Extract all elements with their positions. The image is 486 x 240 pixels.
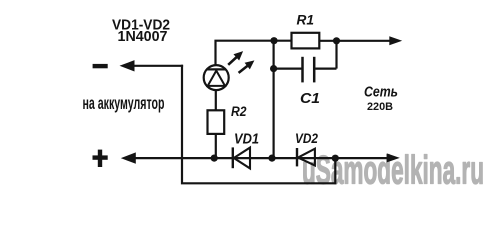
diode VD1: [233, 147, 250, 168]
LED emission arrow 1: [225, 48, 246, 68]
LED HL1 circle: [204, 65, 229, 90]
wire LED branch top corner: [216, 41, 275, 66]
svg-text:Сеть: Сеть: [364, 85, 398, 101]
wire bottom main: [134, 157, 389, 159]
wire C1 branch left vertical: [273, 41, 275, 159]
arrow to plus terminal: [121, 152, 136, 163]
svg-text:на аккумулятор: на аккумулятор: [83, 93, 165, 113]
svg-text:1N4007: 1N4007: [118, 28, 168, 45]
wire R1 right lead to mains arrow: [319, 40, 391, 42]
wire R1 left lead: [274, 40, 292, 42]
wire LED to R2: [215, 90, 217, 112]
arrow to minus terminal: [120, 60, 135, 71]
svg-text:R1: R1: [297, 12, 315, 27]
resistor R1: [292, 33, 320, 49]
resistor R2: [208, 110, 225, 134]
junction node bottom at C1 branch: [268, 155, 275, 162]
LED cathode bar: [207, 68, 226, 70]
junction node bottom at R2 branch: [211, 155, 218, 162]
minus terminal: [93, 64, 108, 68]
wire C1 left lead: [274, 67, 302, 69]
junction node top-left of R1: [270, 37, 277, 44]
svg-text:uSamodelkina.ru: uSamodelkina.ru: [302, 149, 484, 193]
junction node top-right of R1: [333, 37, 340, 44]
capacitor C1: [301, 57, 304, 83]
svg-text:R2: R2: [231, 104, 247, 119]
wire R2 to bottom: [215, 134, 217, 159]
svg-text:C1: C1: [300, 91, 320, 107]
svg-text:VD2: VD2: [295, 131, 318, 146]
wire C1 right vertical: [335, 41, 337, 69]
svg-text:VD1: VD1: [234, 131, 259, 147]
LED emission arrow 2: [236, 57, 257, 76]
svg-text:220В: 220В: [367, 101, 393, 113]
arrow to mains bottom: [387, 153, 400, 162]
junction node bottom right: [332, 155, 339, 162]
wire C1 right lead: [315, 67, 336, 69]
junction node C1 left lead: [270, 65, 277, 72]
wire bypass left vertical, bottom horizontal, right up: [182, 65, 335, 184]
wire top-left horizontal: [132, 65, 183, 67]
arrow to mains top: [389, 36, 402, 45]
diode VD2: [297, 148, 315, 166]
plus terminal: [93, 155, 108, 159]
LED triangle: [208, 71, 225, 86]
